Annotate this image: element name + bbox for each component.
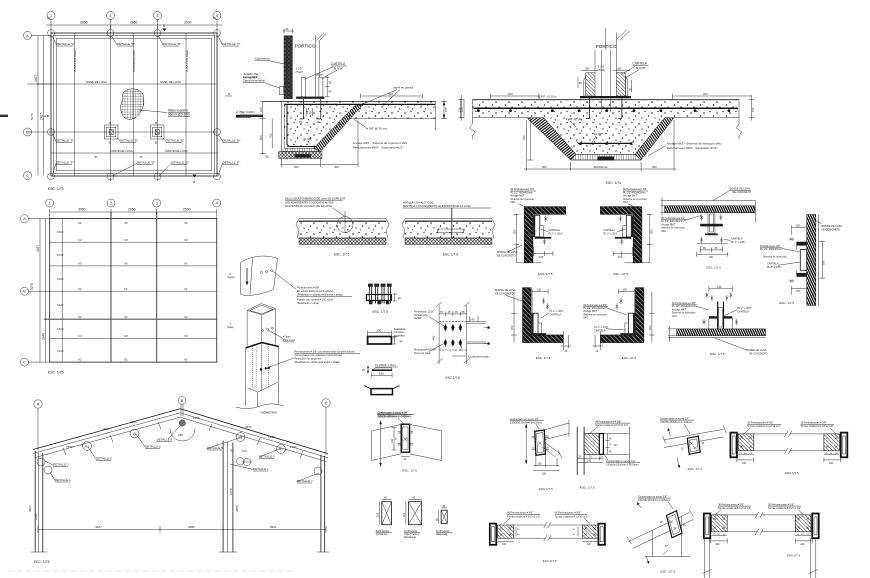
svg-text:350: 350: [652, 165, 657, 169]
section 1: [382, 502, 392, 525]
svg-text:ESC. 1/7.6: ESC. 1/7.6: [402, 469, 417, 473]
svg-text:150: 150: [391, 438, 394, 443]
svg-text:3: 3: [157, 14, 159, 18]
weld joint heavy line: [246, 343, 279, 349]
concrete L band: [524, 207, 566, 263]
svg-text:DETALLE 5: DETALLE 5: [96, 457, 112, 461]
svg-text:36 Perforaciones # 5/8": 36 Perforaciones # 5/8": [768, 503, 794, 506]
svg-text:Anclaje MKT - Sistema de iny: Anclaje MKT - Sistema de inyección VAU: [667, 142, 722, 146]
svg-text:150: 150: [259, 107, 263, 112]
steel plates: [531, 313, 533, 335]
svg-text:44 Perforaciones # 5/8": 44 Perforaciones # 5/8": [595, 420, 621, 423]
grid bubble A: [34, 400, 42, 408]
svg-text:150: 150: [379, 372, 384, 376]
bolts row 2: [443, 339, 462, 347]
sleeve outer tube: [245, 348, 247, 406]
svg-text:400: 400: [432, 335, 436, 340]
svg-text:DE CONCRETO: DE CONCRETO: [822, 229, 840, 232]
right column: [320, 455, 322, 552]
slab top line: [472, 99, 739, 101]
svg-text:ESC. 1/7.5: ESC. 1/7.5: [780, 301, 795, 305]
top dim 100: [618, 290, 634, 292]
svg-text:130x50x130x3mm L=100mm: 130x50x130x3mm L=100mm: [377, 415, 409, 418]
detail G: wall edge (far right): [760, 215, 842, 306]
svg-text:2950: 2950: [128, 208, 136, 212]
svg-text:ESA 1/7.5: ESA 1/7.5: [787, 554, 801, 558]
svg-text:Perforaciones #3/4" - Espaci: Perforaciones #3/4" - Espaciado #1/2": [353, 146, 404, 150]
stiffener plate left: [302, 78, 306, 97]
top bolts: [705, 292, 708, 298]
vertical dividers: [61, 219, 63, 363]
svg-text:LOSA CON VIGA: LOSA CON VIGA: [185, 50, 189, 72]
svg-text:1440: 1440: [57, 349, 64, 353]
steel plate: [800, 250, 806, 271]
grid line V5: [157, 25, 159, 181]
left dims: [668, 328, 677, 330]
top dimension line: [46, 24, 222, 26]
svg-text:DETALLE "C": DETALLE "C": [223, 42, 241, 46]
svg-text:ESC. 1/7.5: ESC. 1/7.5: [580, 486, 595, 490]
svg-text:ESC 1/7.5: ESC 1/7.5: [785, 471, 799, 475]
right dim 250: [821, 242, 823, 278]
svg-text:100: 100: [829, 462, 834, 465]
svg-text:140: 140: [470, 318, 475, 322]
svg-text:320: 320: [522, 135, 526, 140]
svg-text:ESC. 1/7.3: ESC. 1/7.3: [688, 467, 703, 471]
side thickness dims: [460, 95, 462, 121]
steel plates: [533, 215, 535, 237]
svg-text:ESC. 1/7.5: ESC. 1/7.5: [538, 272, 553, 276]
grid bubble 1: [47, 12, 55, 20]
bolts row 1: [443, 324, 462, 332]
svg-text:V3: V3: [124, 238, 128, 242]
left dim 200: [515, 214, 517, 262]
detalle labels: [45, 426, 319, 483]
svg-text:PL 1/2" 250x300mm: PL 1/2" 250x300mm: [760, 248, 782, 251]
gusset plate: [687, 436, 700, 454]
left dim group: [599, 331, 601, 350]
side dims 40: [577, 77, 579, 88]
svg-text:150: 150: [377, 512, 380, 517]
svg-text:VARILLA LISA #1/2" D.20: VARILLA LISA #1/2" D.20: [403, 200, 434, 204]
left note block: [672, 302, 696, 318]
bottom dim 100: [613, 253, 632, 255]
svg-text:V2: V2: [124, 287, 128, 291]
svg-text:A Lado para soldar: A Lado para soldar: [468, 355, 489, 358]
svg-text:Rambrana): Rambrana): [404, 536, 416, 539]
svg-text:36 Perforaciones # 5/8": 36 Perforaciones # 5/8": [747, 422, 773, 425]
svg-text:100: 100: [587, 543, 592, 546]
svg-text:A: A: [37, 403, 40, 407]
svg-text:1493: 1493: [290, 445, 297, 449]
svg-text:Conformado en acero 1/4": Conformado en acero 1/4": [660, 417, 689, 420]
purlin detail pair bottom-right: [703, 503, 819, 578]
table frame: [50, 219, 217, 363]
svg-text:DE CONCRETO: DE CONCRETO: [497, 255, 515, 258]
svg-text:168: 168: [178, 433, 183, 437]
left notes: [414, 311, 437, 355]
bolts: [670, 521, 677, 530]
svg-text:PORTICO: PORTICO: [295, 44, 316, 49]
left dims: [262, 101, 264, 153]
pit right slope hatch: [635, 118, 674, 160]
svg-text:110: 110: [242, 449, 247, 453]
dims 100: [791, 227, 807, 229]
top slab line: [665, 200, 756, 202]
grid bubble C left: [20, 358, 28, 366]
svg-text:V3: V3: [78, 334, 82, 338]
svg-text:4: 4: [216, 14, 218, 18]
svg-text:ESC. 1/75: ESC. 1/75: [48, 187, 64, 191]
svg-text:(baja): (baja): [227, 326, 234, 329]
svg-text:V3: V3: [184, 221, 188, 225]
svg-text:(TH2): (TH2): [598, 68, 605, 72]
concrete L band: [600, 288, 644, 343]
detail E: bottom-right corner (mirrored): [583, 287, 655, 360]
left member: [372, 424, 402, 431]
svg-text:V2: V2: [184, 287, 188, 291]
left strip note: [285, 197, 345, 209]
bottom dims: [535, 455, 537, 467]
svg-text:130x50x130x3mm L=100mm: 130x50x130x3mm L=100mm: [606, 463, 638, 466]
svg-text:SELLO ELASTOMERICO DE 2mm DE E: SELLO ELASTOMERICO DE 2mm DE ESPESOR: [285, 197, 345, 201]
right rafter: [180, 409, 328, 454]
svg-text:130x50x130x3mm L=100mm: 130x50x130x3mm L=100mm: [638, 499, 670, 502]
inner dims: [393, 428, 395, 451]
svg-text:4427: 4427: [34, 75, 38, 82]
concrete stipple slab: [284, 101, 436, 148]
channel plate section: [364, 385, 400, 395]
svg-text:ESC 1/7.5: ESC 1/7.5: [539, 487, 553, 491]
steel plates: [631, 215, 633, 237]
svg-text:1547: 1547: [57, 253, 64, 257]
right strip note: [403, 200, 472, 208]
stiffener plate right hatched: [616, 73, 625, 96]
steel plates: [633, 313, 635, 335]
iso note block 2: [295, 351, 355, 365]
top chord gusset detail: [660, 417, 726, 471]
svg-text:56: 56: [328, 81, 332, 85]
detail A: top-left corner: [497, 188, 566, 276]
outer face line: [817, 215, 819, 306]
svg-text:150: 150: [542, 472, 547, 475]
bottom dimension line: [38, 529, 326, 531]
svg-text:200: 200: [650, 229, 654, 234]
column: [576, 427, 578, 475]
svg-text:(TH2): (TH2): [296, 70, 303, 74]
svg-text:B: B: [155, 141, 157, 145]
svg-text:DETALLE "A": DETALLE "A": [57, 42, 75, 46]
plate bolts: [398, 432, 413, 446]
svg-text:3050: 3050: [80, 21, 88, 25]
svg-text:NIVEL DE LOSA: NIVEL DE LOSA: [86, 80, 107, 84]
lower bolts: [703, 319, 706, 325]
grid bubble A left: [20, 215, 28, 223]
slab bottom line: [349, 118, 436, 120]
svg-text:3050: 3050: [78, 208, 86, 212]
slab stipple: [472, 101, 739, 118]
svg-text:100: 100: [618, 255, 623, 259]
svg-text:de 5/8": de 5/8": [414, 317, 422, 320]
svg-text:350: 350: [542, 165, 547, 169]
grid bubble 4: [213, 12, 221, 20]
svg-text:BORDE DE LOSA: BORDE DE LOSA: [495, 289, 516, 292]
svg-text:1150: 1150: [34, 513, 38, 520]
svg-text:(Realizado en planta para arri: (Realizado en planta para arriba o abajo…: [295, 361, 341, 364]
svg-text:#6mm @0.30m: #6mm @0.30m: [168, 113, 190, 117]
stiffener plate right: [319, 78, 323, 97]
dim 200 left: [490, 95, 539, 97]
svg-text:DE CONCRETO: DE CONCRETO: [733, 191, 751, 194]
concrete L band: [600, 207, 642, 263]
bottom dims: [526, 120, 528, 171]
section 3: [441, 510, 447, 523]
left dims: [515, 527, 517, 536]
right slab thickness dim: [443, 99, 445, 118]
svg-text:CARTELA: CARTELA: [738, 310, 750, 313]
svg-text:Tornas c/cabeza # 1/2"x2 1/2": Tornas c/cabeza # 1/2"x2 1/2": [555, 515, 588, 518]
hatched gusset: [584, 434, 599, 455]
svg-text:PL 2" x 3/16": PL 2" x 3/16": [604, 232, 618, 235]
right dims: [577, 527, 579, 536]
svg-text:SENTADA CON RESPECTO AL ESPESO: SENTADA CON RESPECTO AL ESPESOR DE LA LO…: [403, 204, 472, 208]
svg-text:Var # en planta: Var # en planta: [393, 86, 413, 90]
svg-text:N.P.P. +0.10m: N.P.P. +0.10m: [538, 95, 557, 99]
anchor bolts: [303, 99, 305, 119]
bottom line: [697, 243, 728, 245]
svg-text:2500: 2500: [184, 21, 192, 25]
left edge + break: [471, 100, 473, 124]
svg-text:DETALLE "F": DETALLE "F": [223, 161, 241, 165]
steel hanger: [708, 213, 715, 234]
canal box at wall base: [279, 87, 283, 95]
grid bubble 2: [107, 199, 115, 207]
svg-text:DETALLE "G": DETALLE "G": [137, 161, 155, 165]
svg-text:100: 100: [537, 287, 542, 291]
plate: [535, 430, 546, 455]
svg-text:20: 20: [398, 296, 402, 300]
bolts: [690, 442, 696, 449]
svg-text:DETALLE 5: DETALLE 5: [207, 446, 223, 450]
right member: [812, 514, 819, 539]
svg-text:850: 850: [259, 135, 263, 140]
hatched slab band: [665, 206, 755, 213]
svg-text:2500: 2500: [183, 208, 191, 212]
svg-text:100: 100: [796, 289, 801, 293]
svg-text:200: 200: [513, 229, 517, 234]
svg-text:Tornas c/cabeza # 1/2"x2 1/2": Tornas c/cabeza # 1/2"x2 1/2": [768, 507, 801, 510]
hidden dotted lines: [251, 346, 253, 388]
dims below: [700, 249, 723, 251]
column box sides: [246, 311, 248, 349]
grid line V6: [185, 33, 187, 176]
svg-text:1616: 1616: [193, 416, 200, 420]
svg-text:7550: 7550: [66, 445, 73, 449]
grid bubble B left: [20, 287, 28, 295]
beam labels V2/V3: [78, 221, 188, 362]
left pit dim 320: [529, 118, 531, 160]
grid bubble 4: [213, 199, 221, 207]
svg-text:450: 450: [334, 165, 339, 169]
svg-text:N 3/8": N 3/8": [304, 137, 312, 141]
svg-text:V3: V3: [124, 334, 128, 338]
svg-text:ESC. 1/75: ESC. 1/75: [34, 560, 50, 564]
svg-text:DETALLE "B": DETALLE "B": [163, 42, 181, 46]
svg-text:1547: 1547: [57, 303, 64, 307]
svg-text:V2: V2: [124, 358, 128, 362]
svg-text:B 3/16": B 3/16": [334, 66, 344, 70]
svg-text:CORTE DE LOSA: CORTE DE LOSA: [110, 149, 133, 153]
svg-text:3: 3: [156, 202, 158, 206]
svg-text:130: 130: [709, 255, 714, 259]
svg-text:VAU: VAU: [510, 201, 515, 204]
svg-text:ESC. 1/74: ESC. 1/74: [606, 181, 622, 185]
svg-text:VAU: VAU: [583, 317, 588, 320]
grid bubble 3: [153, 199, 161, 207]
svg-text:Sistema de inyección: Sistema de inyección: [763, 255, 787, 258]
svg-text:Tornas c/cabeza # 1/2"x2 1/2": Tornas c/cabeza # 1/2"x2 1/2": [718, 507, 751, 510]
grid bubble A (left): [24, 31, 32, 39]
middle column: [222, 441, 224, 553]
svg-text:66 Perforaciones # 5/8": 66 Perforaciones # 5/8": [507, 512, 533, 515]
vertical arrow dim: [525, 424, 527, 464]
splice plate: [401, 424, 409, 452]
anchor bolts into pit: [588, 98, 590, 118]
svg-text:ISOMETRIA: ISOMETRIA: [261, 411, 278, 415]
svg-text:# 3/8" @ 20 cm.: # 3/8" @ 20 cm.: [366, 126, 388, 130]
svg-text:DETALLE "E": DETALLE "E": [120, 139, 138, 143]
top dim 100: [532, 290, 548, 292]
grid bubble 1: [46, 199, 54, 207]
section 2: [408, 502, 421, 525]
svg-text:36 Perforaciones # 5/8": 36 Perforaciones # 5/8": [718, 503, 744, 506]
svg-text:2940: 2940: [42, 333, 46, 340]
arrow on fragment: [246, 268, 248, 283]
svg-text:PL 2" x 3/16": PL 2" x 3/16": [731, 241, 745, 244]
apex angle arc: [170, 429, 195, 442]
bolt array elevation: [414, 302, 490, 380]
svg-text:BORDE DE LOSA: BORDE DE LOSA: [497, 251, 518, 254]
svg-text:Anclaje MKT - Sistema de iny: Anclaje MKT - Sistema de inyección VAU: [353, 141, 408, 145]
svg-text:CARTELA: CARTELA: [594, 329, 606, 332]
sobremuro dark wall: [284, 36, 292, 99]
left member: [704, 514, 711, 539]
svg-text:Conformado en acero 1/4": Conformado en acero 1/4": [606, 460, 635, 463]
svg-text:A: A: [460, 348, 462, 352]
svg-text:V2: V2: [78, 287, 82, 291]
right edge line: [755, 201, 757, 223]
slab bottom right: [674, 117, 739, 119]
leader to mesh text: [139, 110, 167, 113]
svg-text:V3: V3: [78, 262, 82, 266]
svg-text:Tornas c/cabeza # 1/2"x2 1/2": Tornas c/cabeza # 1/2"x2 1/2": [507, 515, 540, 518]
svg-text:4647: 4647: [103, 427, 110, 431]
svg-text:2# 3/8": 2# 3/8": [594, 132, 603, 136]
svg-text:C: C: [23, 361, 26, 365]
svg-text:B: B: [109, 141, 111, 145]
bolt dim 1.20: [306, 108, 308, 116]
arrows: [668, 428, 671, 437]
bolt row detail: [367, 284, 402, 314]
svg-text:T.N. 0.00m: T.N. 0.00m: [240, 110, 255, 114]
svg-text:1520: 1520: [57, 327, 64, 331]
anchor bolts: [544, 216, 547, 223]
svg-text:LOSA CON VIGA: LOSA CON VIGA: [132, 50, 136, 72]
svg-text:100: 100: [377, 329, 382, 333]
leader from dot to note: [273, 271, 297, 289]
svg-text:Conformado en acero 3/8": Conformado en acero 3/8": [638, 495, 667, 498]
bottom dims: [577, 458, 603, 460]
svg-text:PL 150X6, 7.0mm: PL 150X6, 7.0mm: [375, 363, 396, 367]
purlin detail pair top-right: [730, 422, 847, 476]
grid bubble C: [322, 399, 330, 407]
row dim numbers: [57, 230, 64, 353]
right dims: [824, 454, 840, 456]
end plate: [599, 434, 603, 455]
svg-text:DE CONCRETO: DE CONCRETO: [495, 293, 513, 296]
svg-text:Conformado en acero 1/4": Conformado en acero 1/4": [510, 418, 539, 421]
diagonal member: [545, 443, 560, 454]
svg-text:Tornas c/cabeza # 1/2"x2 1/2": Tornas c/cabeza # 1/2"x2 1/2": [801, 425, 834, 428]
svg-text:VAU: VAU: [661, 230, 666, 233]
svg-text:500: 500: [388, 92, 393, 96]
svg-text:DETALLE "E": DETALLE "E": [166, 139, 184, 143]
svg-text:PL 2" x 3/16": PL 2" x 3/16": [549, 232, 563, 235]
svg-text:V1: V1: [279, 448, 283, 452]
note block: [623, 188, 647, 204]
bolts through: [369, 287, 390, 304]
svg-text:Para Grout: Para Grout: [283, 339, 296, 342]
node circles on rafters: [83, 442, 92, 451]
solado crosshatch strip: [279, 152, 322, 159]
bottom chord gusset detail: [627, 495, 694, 573]
bottom dim 100: [534, 253, 553, 255]
column detail B3: [151, 121, 165, 145]
concrete L band: [523, 288, 564, 343]
svg-text:DETALLE 5: DETALLE 5: [145, 445, 161, 449]
floor line: [625, 262, 650, 264]
svg-text:2950: 2950: [130, 21, 138, 25]
svg-text:2407: 2407: [40, 113, 44, 120]
svg-text:100: 100: [800, 543, 805, 546]
svg-text:3050: 3050: [235, 505, 239, 512]
svg-text:200: 200: [294, 165, 299, 169]
svg-text:(Diagonal): (Diagonal): [436, 533, 447, 536]
svg-text:1520: 1520: [57, 230, 64, 234]
chord lines: [629, 512, 690, 541]
svg-text:450/400mm: 450/400mm: [593, 165, 608, 169]
svg-text:ESC 1/7.6: ESC 1/7.6: [445, 376, 460, 380]
svg-text:DETALLE "B": DETALLE "B": [117, 42, 135, 46]
column base plate detail: [577, 420, 640, 489]
detail F: slab T from above: [668, 285, 767, 356]
svg-text:40: 40: [400, 340, 404, 344]
svg-text:150: 150: [751, 107, 755, 112]
left dim 200: [513, 291, 515, 342]
grid line V2: [73, 33, 75, 176]
tube cross sections: [376, 496, 452, 539]
bottom line: [677, 337, 766, 339]
svg-text:ESC. 1/7.5: ESC. 1/7.5: [710, 352, 725, 356]
pit bottom rebar: [578, 142, 632, 144]
svg-text:B: B: [109, 121, 111, 125]
plate dims: [326, 78, 328, 97]
purlin detail pair bottom-middle: [490, 512, 605, 563]
svg-text:B: B: [140, 155, 142, 159]
solado black mark: [598, 156, 614, 160]
pit interior stipple: [544, 118, 665, 155]
svg-text:Perforaciones #3/4" - Espaci: Perforaciones #3/4" - Espaciado #1/2": [667, 146, 718, 150]
